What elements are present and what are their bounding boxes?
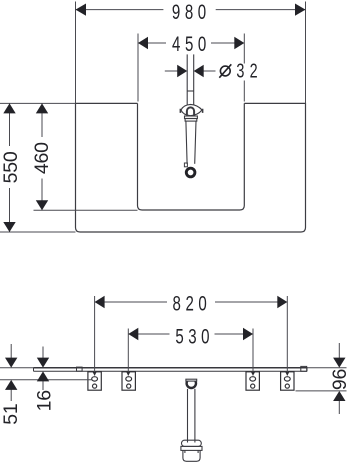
svg-text:96: 96: [329, 369, 349, 390]
svg-text:530: 530: [175, 324, 214, 348]
svg-text:550: 550: [0, 151, 22, 183]
svg-text:460: 460: [31, 142, 53, 174]
svg-text:51: 51: [0, 403, 22, 424]
svg-text:820: 820: [173, 291, 212, 315]
svg-text:450: 450: [172, 31, 211, 55]
svg-text:980: 980: [172, 0, 211, 24]
svg-text:16: 16: [33, 390, 55, 411]
svg-text:32: 32: [236, 59, 263, 82]
